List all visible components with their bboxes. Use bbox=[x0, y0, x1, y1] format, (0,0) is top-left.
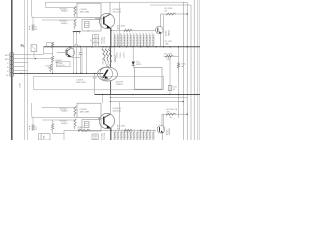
wire rail y=97.4 bbox=[111, 96, 187, 98]
wire horizontal y=120 bbox=[42, 119, 75, 121]
wire top rail y=2.2 bbox=[46, 1, 188, 3]
transistor Q1 circle bbox=[99, 13, 114, 28]
connector block B3 box bbox=[82, 20, 101, 32]
wire vertical x=163.5 top bbox=[163, 14, 165, 47]
wire horizontal y=107.4 bbox=[42, 106, 75, 108]
transistor Q1 collector stroke bbox=[104, 14, 110, 17]
svg-text:R1845/2WL5: R1845/2WL5 bbox=[115, 129, 117, 140]
wire drop from top rail at x=45.5 bbox=[45, 2, 47, 7]
wire Q5 base lead bbox=[98, 118, 104, 120]
wire pin4 L-shape bbox=[13, 66, 24, 68]
wire vertical bus x=24.7 bbox=[24, 0, 26, 140]
svg-text:R1845/2WL5: R1845/2WL5 bbox=[128, 129, 130, 140]
svg-text:R1845/2WL5: R1845/2WL5 bbox=[147, 35, 149, 46]
svg-text:3HA(1): 3HA(1) bbox=[61, 110, 68, 113]
svg-text:BY+15FL: BY+15FL bbox=[164, 53, 173, 55]
transistor Q5 emitter stroke with arrow bbox=[104, 124, 110, 128]
label C6 colon marks bbox=[29, 126, 30, 127]
component trimmer VR1 small circle bbox=[75, 44, 78, 47]
wire vertical x=73.7 to mid rail bbox=[73, 34, 75, 73]
svg-text:2SC240: 2SC240 bbox=[104, 37, 106, 44]
svg-text:R1845/2WL5: R1845/2WL5 bbox=[137, 35, 139, 46]
svg-text:2SC240: 2SC240 bbox=[104, 133, 106, 140]
connector box B6 bottom bbox=[92, 134, 98, 139]
transistor Q6 emitter arrow bbox=[161, 131, 164, 133]
svg-text:R1845/2WL5: R1845/2WL5 bbox=[153, 35, 155, 46]
wire L1 leads bbox=[113, 47, 115, 56]
resistor R13 horizontal on y=130.4 left bbox=[78, 129, 91, 131]
wire vertical x=119.6 top bbox=[119, 2, 121, 47]
svg-text:R1845/2WL5: R1845/2WL5 bbox=[118, 129, 120, 140]
resistor R4 horizontal on y=14 bbox=[166, 13, 176, 15]
svg-text:R1845/2WL5: R1845/2WL5 bbox=[147, 129, 149, 140]
connector P1 pin boxes at left edge bbox=[10, 53, 14, 56]
transistor Q1 base bar bbox=[103, 17, 105, 25]
wire Q1 collector up x=110 bbox=[109, 2, 111, 14]
wire right bus vertical x=183.3 bbox=[182, 2, 184, 140]
wire pin6 mid rail start bbox=[13, 72, 15, 74]
resistor R5 vertical x=52.6 bbox=[51, 42, 53, 48]
svg-text:R1845: R1845 bbox=[41, 134, 43, 139]
wire Q3 emitter to cap bbox=[72, 57, 81, 59]
wire right bus vertical x=194.2 bbox=[193, 0, 195, 140]
wire vertical x=76.7 to mid rail bbox=[76, 34, 78, 44]
resistor R8 horizontal y=56.2 bbox=[166, 55, 174, 57]
connector B3 ladder glyph bbox=[85, 22, 90, 28]
resistor R17 zigzag below rail bbox=[105, 48, 108, 61]
transistor Q5 circle bbox=[99, 113, 114, 128]
resistor R14 vertical x=52.6 bottom bbox=[51, 124, 53, 131]
wire C1 stub from corner bbox=[32, 16, 33, 18]
svg-text:Q1846: Q1846 bbox=[166, 130, 168, 136]
wire y=130.4 from left to Q6 bbox=[64, 129, 156, 131]
svg-text:R1845/2WL5: R1845/2WL5 bbox=[121, 129, 123, 140]
resistor R2 vertical at x=75 bbox=[74, 19, 76, 29]
resistor R1 vertical at x=75 top bbox=[74, 6, 76, 17]
wire rail y=101.6 bbox=[111, 101, 183, 103]
resistor R11 vertical x=75 lower bbox=[74, 119, 76, 129]
transistor Q4 inner circle bbox=[100, 67, 113, 80]
svg-text:R1845/2WL5: R1845/2WL5 bbox=[141, 35, 143, 46]
transistor Q6 base bar bbox=[159, 127, 161, 132]
transistor Q3 emitter arrow bbox=[67, 54, 71, 57]
wire input vertical x=31.6 top with rounded corner bbox=[32, 0, 77, 18]
svg-text:1L: 1L bbox=[35, 26, 37, 28]
resistor R9 vertical on x=178.5 bbox=[177, 63, 179, 69]
wire Q6 collector up x=162 bbox=[161, 114, 163, 126]
svg-text:R1845/2WL5: R1845/2WL5 bbox=[125, 35, 127, 46]
wire Q4 emitter x=110.6 to lower rail bbox=[110, 81, 112, 95]
wire Q1 emitter down to rail dark x=110.8 bbox=[110, 28, 112, 47]
svg-text:R1845/2WL5: R1845/2WL5 bbox=[134, 129, 136, 140]
transistor Q5 base bar bbox=[103, 117, 105, 125]
label C1 colon marks bbox=[29, 26, 30, 27]
wire R16-18 merge into Q4 bbox=[105, 62, 107, 67]
wire feedback loop C-shape bbox=[43, 47, 45, 54]
wire Q2 collector up x=160.5 bbox=[160, 14, 162, 27]
svg-text:R1845/2WL5: R1845/2WL5 bbox=[121, 35, 123, 46]
wire J2 pin stubs bbox=[73, 32, 75, 35]
resistor R18 zigzag below rail bbox=[109, 48, 112, 61]
svg-text:R1845/2WL5: R1845/2WL5 bbox=[131, 35, 133, 46]
wire x=52.6 segment bbox=[52, 48, 54, 56]
wire y=42.4 top of R5 bbox=[47, 41, 53, 43]
wire vertical bus x=27.5 bbox=[27, 0, 29, 140]
svg-text:2SA992: 2SA992 bbox=[167, 30, 170, 37]
transistor Q4 outer ellipse bbox=[98, 67, 118, 81]
wire R14 top lead from y=120 bbox=[52, 120, 54, 124]
svg-text:1S953: 1S953 bbox=[136, 64, 141, 66]
transistor Q2 emitter arrow bbox=[159, 31, 162, 33]
wire R14 bottom corner bbox=[52, 131, 54, 134]
box outer OB output stage bbox=[34, 76, 164, 90]
wire Q5 emitter down dark x=110.8 bbox=[110, 128, 112, 140]
svg-text:R1845/2WL5: R1845/2WL5 bbox=[115, 35, 117, 46]
wire right edge vertical x=199.6 bbox=[199, 0, 201, 140]
svg-text:R1845/2WL5: R1845/2WL5 bbox=[150, 35, 152, 46]
wire pin1 y=54.6 bbox=[13, 54, 43, 56]
transistor Q2 circle bbox=[156, 26, 164, 34]
svg-text:Q1846: Q1846 bbox=[166, 31, 168, 37]
wire C3 lead down bbox=[33, 51, 35, 57]
resistor R16 zigzag below rail bbox=[102, 48, 105, 61]
capacitor C4 plates bbox=[79, 52, 82, 54]
connector CN2 stacked boxes bbox=[92, 35, 98, 39]
wire Q5 collector up x=110.4 bbox=[109, 95, 111, 115]
capacitor C5 polarized below mid rail bbox=[94, 73, 96, 76]
svg-text:1MF+1MN: 1MF+1MN bbox=[80, 111, 90, 113]
wire right bus vertical x=178.5 bbox=[178, 47, 180, 118]
connector block B5 box bottom bbox=[82, 120, 101, 132]
wire vertical x=119.6 bottom bbox=[119, 102, 121, 131]
resistor R10 vertical x=75 bottom bbox=[74, 106, 76, 117]
svg-text:R1845/2WL5: R1845/2WL5 bbox=[134, 35, 136, 46]
svg-text:3HA(1): 3HA(1) bbox=[61, 10, 68, 13]
wire Q3 collector to rail bbox=[70, 47, 72, 49]
svg-text:3HA(1): 3HA(1) bbox=[61, 22, 68, 25]
transistor Q4 emitter arrow blob bbox=[104, 75, 108, 79]
wire pin5 y=70.6 bbox=[13, 70, 27, 72]
wire y=14 collector rail to bus bbox=[161, 13, 188, 15]
transistor Q3 collector stroke bbox=[67, 48, 71, 50]
svg-text:C1845L: C1845L bbox=[120, 52, 122, 58]
svg-text:R1845/2WL5: R1845/2WL5 bbox=[137, 129, 139, 140]
wire C5 down to rail y=94.5 bbox=[94, 78, 96, 95]
transistor Q3 circle bbox=[65, 48, 74, 57]
svg-text:1L: 1L bbox=[35, 126, 37, 128]
wire x=80.5 cap down to mid rail bbox=[80, 54, 82, 73]
svg-text:R1845/2WL5: R1845/2WL5 bbox=[144, 129, 146, 140]
resistor R7 vertical x=50.8 bbox=[50, 64, 52, 72]
wire Q1 base lead bbox=[95, 18, 104, 20]
wire vertical x=86.5 rail to mid rail bbox=[86, 47, 88, 74]
wire mid rail y=73.4 bbox=[13, 72, 103, 74]
wire input vertical x=31.6 bottom with rounded corner bbox=[32, 103, 77, 118]
svg-text:R1845/2WL5: R1845/2WL5 bbox=[131, 129, 133, 140]
svg-text:R1845/2WL5: R1845/2WL5 bbox=[153, 129, 155, 140]
resistor R6 vertical x=52.6 lower bbox=[51, 56, 53, 63]
wire pin2 y=58.6 bbox=[13, 58, 52, 60]
transistor Q3 base bar bbox=[66, 50, 68, 55]
wire right bus vertical x=187.2 bbox=[186, 2, 188, 140]
resistor R12 horizontal on y=130.4 bbox=[124, 129, 133, 131]
svg-text:R1845/2WL5: R1845/2WL5 bbox=[128, 35, 130, 46]
capacitor C1 vertical plates bbox=[31, 25, 33, 31]
svg-text:R1845/2WL5: R1845/2WL5 bbox=[118, 35, 120, 46]
box inner IB right of Q4 bbox=[135, 68, 163, 90]
svg-text:2SC240: 2SC240 bbox=[102, 58, 104, 64]
wire Q6 emitter down x=162.5 bbox=[162, 133, 164, 140]
wire main horizontal rail y=46.8 dark bbox=[44, 46, 201, 48]
wire main dark vertical F1 line x=11.8 bbox=[11, 0, 13, 140]
wire vertical x=102.6 from lower rail bbox=[102, 95, 104, 104]
capacitor C2 box B2 with label bbox=[77, 3, 101, 17]
wire top rail y=5 bbox=[150, 4, 191, 6]
wire vertical x=82 to mid rail bbox=[81, 48, 83, 73]
node junction dots on mid rail bbox=[20, 73, 21, 74]
wire Q3 base lead bbox=[57, 51, 65, 53]
svg-text:2SD880: 2SD880 bbox=[169, 129, 171, 136]
transistor Q5 collector stroke bbox=[104, 114, 110, 117]
svg-text:R1845/2WL5: R1845/2WL5 bbox=[144, 35, 146, 46]
capacitor C6 vertical plates bbox=[31, 125, 33, 131]
component E2 small box on x=170 bbox=[168, 85, 171, 90]
transistor Q4 dark base bar bbox=[103, 70, 108, 78]
transistor Q2 base bar bbox=[157, 28, 159, 33]
connector B5 ladder glyph bbox=[85, 122, 90, 128]
svg-text:3HA(1): 3HA(1) bbox=[61, 122, 68, 125]
transistor Q6 circle bbox=[157, 126, 165, 134]
capacitor C7 box B4 with label bbox=[77, 103, 101, 117]
wire pin3 y=62.6 bbox=[13, 62, 28, 64]
wire R6 down to mid rail bbox=[52, 63, 54, 73]
svg-text:2SB647: 2SB647 bbox=[116, 84, 124, 86]
svg-text:(P): (P) bbox=[165, 10, 168, 12]
wire C6 stub from corner bbox=[32, 116, 33, 118]
svg-text:R1845/2WL5: R1845/2WL5 bbox=[150, 129, 152, 140]
svg-text:100+250: 100+250 bbox=[57, 65, 64, 67]
node junction dots on y=46.8 rail bbox=[52, 46, 53, 47]
wire Q4 collector x=110.6 from rail bbox=[110, 47, 112, 67]
svg-text:2SD2560: 2SD2560 bbox=[113, 111, 122, 113]
wire y=114.2 collector to bus bbox=[162, 113, 187, 115]
transistor Q1 emitter stroke with arrow bbox=[104, 24, 110, 28]
resistor R3 horizontal on y=30.4 bbox=[124, 29, 133, 31]
wire vertical x=170 to lower rail bbox=[169, 56, 171, 94]
svg-text:FL: FL bbox=[21, 44, 25, 48]
svg-text:1MF+1MN: 1MF+1MN bbox=[76, 82, 86, 84]
svg-text:C1845L: C1845L bbox=[117, 52, 119, 58]
connector header bar J2 dark bbox=[73, 31, 81, 33]
resistor R15 horizontal on y=114.2 bbox=[166, 113, 176, 115]
svg-text:2SC2240: 2SC2240 bbox=[113, 12, 122, 14]
inductor L1 loop below rail bbox=[114, 55, 115, 62]
node bus tick labels above main rail bbox=[113, 30, 115, 46]
capacitor C3 small box at x=31-37 bbox=[31, 45, 37, 52]
node bus tick labels below y=130.4 rail bbox=[113, 130, 115, 140]
svg-text:1MF+1MN: 1MF+1MN bbox=[80, 11, 90, 13]
wire vertical x=133.2 diode branch bbox=[132, 47, 134, 68]
wire right bus vertical x=197.8 bbox=[197, 0, 199, 140]
svg-text:(B): (B) bbox=[117, 28, 120, 30]
wire Q2 emitter down x=160.5 bbox=[160, 34, 162, 47]
svg-text:C1845L: C1845L bbox=[123, 52, 125, 58]
box around bottom label bbox=[39, 134, 51, 140]
node junction dots on y=94.5 bbox=[110, 94, 111, 95]
wire y=56.2 with resistor bbox=[164, 55, 179, 57]
wire x=80.5 from rail to cap bbox=[80, 47, 82, 53]
diode D1 triangle bbox=[132, 62, 135, 65]
label boxed text BT1 bbox=[56, 62, 70, 67]
wire vertical x=163.5 bottom bbox=[163, 114, 165, 130]
svg-text:R1845/2WL5: R1845/2WL5 bbox=[141, 129, 143, 140]
wire horizontal y=7.4 bbox=[46, 6, 76, 8]
svg-text:R1845/2WL5: R1845/2WL5 bbox=[125, 129, 127, 140]
wire right bus vertical x=191 bbox=[190, 5, 192, 140]
wire y=30.4 from Q1 to Q2 bbox=[111, 29, 156, 31]
wire lower rail y=94.5 dark bbox=[95, 94, 201, 96]
wire horizontal y=20 bbox=[42, 19, 75, 21]
